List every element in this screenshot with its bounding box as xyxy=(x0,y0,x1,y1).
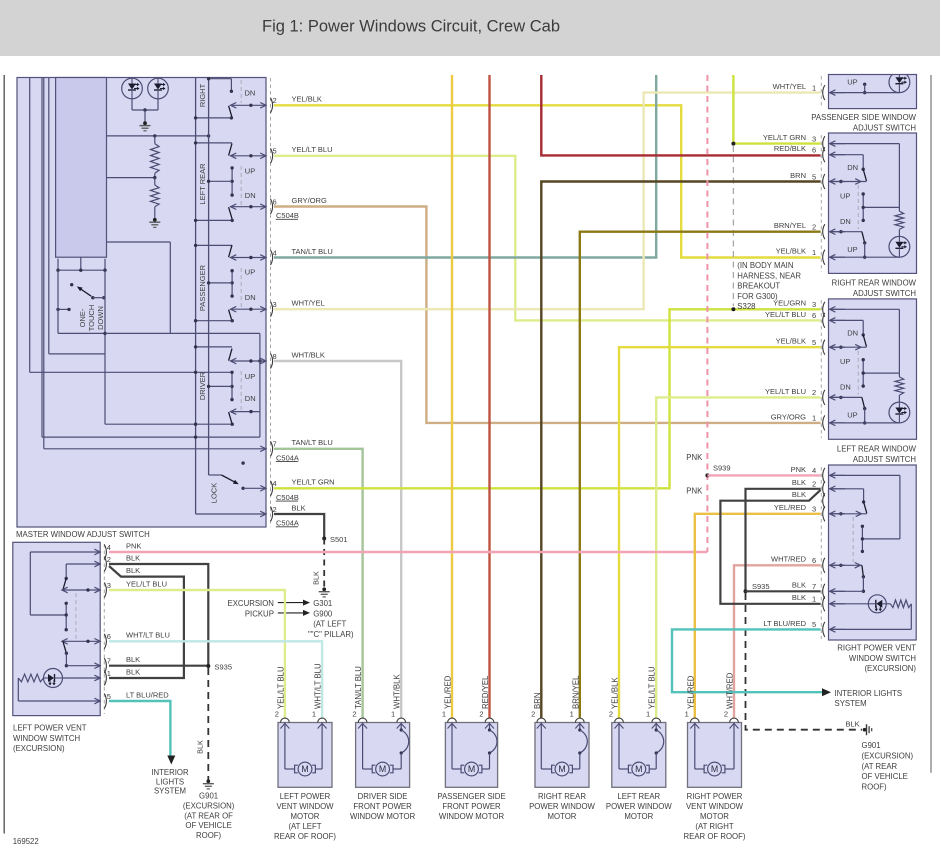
svg-text:5: 5 xyxy=(273,147,277,156)
S5 pin2 to contact xyxy=(830,488,864,490)
pin 3 S6 (YEL/LT BLU) xyxy=(104,583,106,598)
svg-text:6: 6 xyxy=(812,311,816,320)
ground G901 (right) xyxy=(863,728,867,732)
wire YEL/LT GRN (master pin 4 to left rear pin 3 via S328) xyxy=(274,309,821,488)
connector dashed line (S6) xyxy=(103,544,105,714)
svg-text:2: 2 xyxy=(609,710,613,719)
pin 2 master (BLK) xyxy=(271,507,273,522)
svg-text:M: M xyxy=(558,764,565,774)
svg-text:BLK: BLK xyxy=(792,478,806,487)
svg-text:MOTOR: MOTOR xyxy=(624,812,653,821)
svg-text:7: 7 xyxy=(812,582,816,591)
svg-text:C504B: C504B xyxy=(276,493,299,502)
svg-text:1: 1 xyxy=(685,710,689,719)
pin 1 S4 (GRY/ORG) xyxy=(823,415,825,430)
svg-text:YEL/LT BLU: YEL/LT BLU xyxy=(292,145,333,154)
svg-text:WINDOW SWITCH: WINDOW SWITCH xyxy=(13,734,80,743)
svg-text:2: 2 xyxy=(273,96,277,105)
svg-text:YEL/GRN: YEL/GRN xyxy=(773,299,806,308)
svg-text:LEFT POWER VENT: LEFT POWER VENT xyxy=(13,724,87,733)
svg-text:4: 4 xyxy=(273,479,277,488)
diagram right border xyxy=(930,75,932,773)
S5 pin7 row xyxy=(830,590,864,592)
wire DRIVER common loop to left riser xyxy=(259,412,261,438)
svg-text:RIGHT REAR: RIGHT REAR xyxy=(538,792,586,801)
right rear window adjust switch S3 box xyxy=(829,133,917,273)
switch DRIVER SPDT2 row xyxy=(231,411,260,413)
svg-text:HARNESS, NEAR: HARNESS, NEAR xyxy=(737,271,801,280)
switch PASSENGER upper contact feed from bus B1 xyxy=(196,244,232,246)
svg-text:YEL/LT BLU: YEL/LT BLU xyxy=(126,579,167,588)
motor M5 left rear symbol xyxy=(628,765,631,773)
switch section RIGHT - DN contact feed xyxy=(209,78,232,80)
svg-text:RIGHT POWER: RIGHT POWER xyxy=(687,792,743,801)
svg-text:DN: DN xyxy=(245,394,256,403)
splice S501 xyxy=(322,537,326,541)
svg-text:POWER WINDOW: POWER WINDOW xyxy=(606,802,672,811)
svg-text:6: 6 xyxy=(107,632,111,641)
svg-text:M: M xyxy=(635,764,642,774)
svg-text:PASSENGER SIDE: PASSENGER SIDE xyxy=(437,792,505,801)
svg-text:YEL/LT GRN: YEL/LT GRN xyxy=(763,133,806,142)
motor M3 passenger side front symbol xyxy=(461,765,464,773)
svg-text:BRN: BRN xyxy=(533,693,542,709)
svg-text:M: M xyxy=(711,764,718,774)
svg-text:M: M xyxy=(301,764,308,774)
wire YEL/LT BLU (left rear pin 2 to left rear motor pin 1) xyxy=(656,397,820,718)
wire S4 pin3 internal loop xyxy=(830,308,900,310)
svg-text:G901: G901 xyxy=(199,792,218,801)
pin 2 S3 (BRN/YEL) xyxy=(823,224,825,239)
svg-text:2: 2 xyxy=(724,710,728,719)
motor M2 driver side front lead-in arrows xyxy=(358,724,367,729)
svg-text:4: 4 xyxy=(812,466,816,475)
svg-text:TOUCH: TOUCH xyxy=(87,305,96,332)
pin 7 S5 (BLK) xyxy=(823,584,825,599)
pin 5 S3 (BRN) xyxy=(823,174,825,189)
S5 stem xyxy=(861,526,863,551)
motor M3 passenger side front box xyxy=(445,723,497,788)
svg-text:LEFT REAR: LEFT REAR xyxy=(198,163,207,205)
S5 mech link xyxy=(852,517,854,562)
diagram left border xyxy=(3,75,5,834)
S5 pin6 row and blade 2 xyxy=(830,564,862,566)
wire YEL/LT BLU (S6 pin 3 to left vent motor pin 2) xyxy=(109,590,285,718)
svg-text:4: 4 xyxy=(107,543,111,552)
wire BLK (S935 to S5 pin 7) xyxy=(746,590,821,592)
wire one-touch bottom edge xyxy=(58,332,105,334)
wire TAN/LT BLU (master pin 7 to driver motor pin 2) xyxy=(274,449,363,719)
svg-text:YEL/LT BLU: YEL/LT BLU xyxy=(276,666,285,709)
wire LT BLU/RED (S5 pin 5 to interior lights) xyxy=(672,629,822,692)
svg-text:UP: UP xyxy=(847,78,857,87)
splice S935 (right) xyxy=(744,589,748,593)
svg-text:WHT/YEL: WHT/YEL xyxy=(292,299,325,308)
svg-text:OF VEHICLE: OF VEHICLE xyxy=(862,772,908,781)
svg-text:(AT RIGHT: (AT RIGHT xyxy=(695,822,733,831)
wire BLK dashed S501 to ground xyxy=(323,539,325,590)
svg-text:3: 3 xyxy=(812,300,816,309)
motor M6 right power vent internal wiring xyxy=(694,723,696,770)
svg-text:1: 1 xyxy=(570,710,574,719)
svg-text:GRY/ORG: GRY/ORG xyxy=(292,196,327,205)
connector dashed line C504 (master) xyxy=(270,78,272,527)
svg-text:5: 5 xyxy=(107,692,111,701)
svg-text:WHT/RED: WHT/RED xyxy=(771,555,807,564)
motor M4 right rear symbol xyxy=(552,765,555,773)
pin 7 S6 (BLK) xyxy=(104,658,106,673)
wire BLK (master pin 2 to splice S501) xyxy=(274,514,324,539)
splice S328 dashed link xyxy=(732,146,734,306)
svg-text:BLK: BLK xyxy=(126,566,140,575)
passenger side window adjust switch S2 box xyxy=(829,75,917,109)
svg-text:2: 2 xyxy=(812,480,816,489)
pin 4 master (YEL/LT GRN) xyxy=(271,481,273,496)
svg-text:2: 2 xyxy=(275,710,279,719)
ground (resistor divider) xyxy=(153,218,157,222)
svg-text:LT BLU/RED: LT BLU/RED xyxy=(763,619,806,628)
pin 6 S5 (WHT/RED) xyxy=(823,558,825,573)
svg-text:1: 1 xyxy=(646,710,650,719)
motor M6 right power vent box xyxy=(688,723,742,788)
svg-text:2: 2 xyxy=(812,223,816,232)
svg-text:MOTOR: MOTOR xyxy=(291,812,320,821)
svg-text:YEL/BLK: YEL/BLK xyxy=(611,677,620,709)
svg-text:PICKUP: PICKUP xyxy=(245,609,274,618)
svg-text:VENT WINDOW: VENT WINDOW xyxy=(686,802,744,811)
svg-text:YEL/LT BLU: YEL/LT BLU xyxy=(765,387,806,396)
switch PASSENGER SPDT1 row to pin 4 xyxy=(231,257,266,259)
LED (S6 illumination) xyxy=(44,669,63,688)
pin 3 S3 (YEL/LT GRN) xyxy=(823,136,825,151)
svg-text:LEFT POWER: LEFT POWER xyxy=(280,792,331,801)
svg-text:RED/YEL: RED/YEL xyxy=(481,675,490,709)
pin 2 master (YEL/BLK) xyxy=(271,98,273,113)
switch LOCK feed from bus B2 xyxy=(209,474,222,476)
svg-text:DN: DN xyxy=(245,89,256,98)
svg-text:ADJUST SWITCH: ADJUST SWITCH xyxy=(853,455,916,464)
svg-text:EXCURSION: EXCURSION xyxy=(228,599,274,608)
svg-text:BLK: BLK xyxy=(846,719,860,728)
S6 pin arrow xyxy=(94,587,100,593)
svg-text:YEL/BLK: YEL/BLK xyxy=(292,95,322,104)
pin - S5 (BLK second wire) xyxy=(823,493,825,508)
switch DRIVER SPDT1 row to pin 8 xyxy=(231,360,266,362)
node LED junction xyxy=(143,108,146,111)
svg-text:WHT/LT BLU: WHT/LT BLU xyxy=(314,663,323,709)
pin 6 S3 (RED/BLK) xyxy=(823,147,825,162)
svg-text:G301: G301 xyxy=(313,599,332,608)
node resistor top feed xyxy=(153,134,156,137)
pin 6 master (GRY/ORG) xyxy=(271,199,273,214)
svg-text:WHT/BLK: WHT/BLK xyxy=(393,674,402,709)
wire YEL/BLK (left rear pin 5 to left rear motor pin 2) xyxy=(619,347,821,718)
svg-text:WINDOW MOTOR: WINDOW MOTOR xyxy=(439,812,505,821)
switch RIGHT blade and row to pin 2 xyxy=(231,104,266,106)
S6 blade 1 xyxy=(63,578,66,589)
svg-text:ONE-: ONE- xyxy=(78,308,87,327)
switch LEFT REAR up/dn feed stem xyxy=(231,168,233,195)
svg-text:VENT WINDOW: VENT WINDOW xyxy=(276,802,334,811)
S6 pin arrow xyxy=(94,698,100,704)
svg-text:S501: S501 xyxy=(330,535,348,544)
wire GRY/ORG (master pin 6 to left rear pin 1) xyxy=(274,207,821,423)
wire S3 pin6 to upper contact xyxy=(830,154,864,156)
svg-text:RIGHT REAR WINDOW: RIGHT REAR WINDOW xyxy=(832,279,917,288)
pin 6 S4 (YEL/LT BLU) xyxy=(823,313,825,328)
S5 pin3 row xyxy=(830,513,867,515)
node driver row junction xyxy=(258,359,261,362)
svg-text:6: 6 xyxy=(812,146,816,155)
svg-text:FRONT POWER: FRONT POWER xyxy=(442,802,501,811)
svg-text:MOTOR: MOTOR xyxy=(548,812,577,821)
motor M6 right power vent lead-in arrows xyxy=(690,724,699,729)
svg-text:3: 3 xyxy=(273,300,277,309)
wire S3 pin3 internal loop xyxy=(830,143,900,145)
wire BLK dashed (S935 to ground G901 right) xyxy=(746,593,863,730)
wire one-touch lower contact xyxy=(58,308,69,310)
svg-text:UP: UP xyxy=(245,167,255,176)
switch blade 1 (S3) xyxy=(863,169,866,181)
LED (S5 illumination) xyxy=(868,595,886,613)
left power vent window switch S6 box xyxy=(13,542,100,715)
switch blade 2 (S3) xyxy=(830,231,862,233)
svg-text:2: 2 xyxy=(352,710,356,719)
wire left internal riser 3 xyxy=(43,78,45,449)
wire left internal riser 1 xyxy=(29,78,31,373)
svg-text:DN: DN xyxy=(847,329,858,338)
S6 pin5 row xyxy=(18,700,100,702)
svg-text:BRN/YEL: BRN/YEL xyxy=(774,221,806,230)
wire left internal riser 2 xyxy=(41,78,43,438)
wire BRN/YEL (right rear pin 2 to right rear motor pin 1) xyxy=(580,232,821,719)
resistor R1 xyxy=(154,136,156,144)
S6 pin arrow xyxy=(94,561,100,567)
wire inner box to R1/R2 junction xyxy=(107,177,155,179)
wire BLK second (S5 pin 2 to pin 1 loop) xyxy=(720,490,820,604)
svg-text:TAN/LT BLU: TAN/LT BLU xyxy=(292,438,333,447)
svg-text:1: 1 xyxy=(442,710,446,719)
S6 pin arrow xyxy=(94,549,100,555)
svg-text:PNK: PNK xyxy=(791,465,806,474)
resistor R2 xyxy=(154,178,156,185)
motor M6 right power vent pin bumps xyxy=(690,718,699,722)
S6 pin7 row xyxy=(66,665,100,667)
wire BLK second (S6 pin 2 to pin 1 loop) xyxy=(109,566,184,678)
svg-text:LOCK: LOCK xyxy=(210,483,219,503)
svg-text:4: 4 xyxy=(273,248,277,257)
switch DRIVER upper contact feed from bus B1 xyxy=(196,346,232,348)
one-touch-down module lines xyxy=(57,259,59,271)
motor M4 right rear pin bumps xyxy=(537,718,546,722)
svg-text:FRONT POWER: FRONT POWER xyxy=(353,802,412,811)
svg-text:LEFT REAR WINDOW: LEFT REAR WINDOW xyxy=(837,445,917,454)
svg-text:YEL/RED: YEL/RED xyxy=(444,675,453,709)
svg-text:7: 7 xyxy=(107,657,111,666)
motor M3 passenger side front lead-in arrows xyxy=(448,724,457,729)
motor M1 left power vent pin bumps xyxy=(281,718,290,722)
motor M3 passenger side front internal wiring xyxy=(451,723,453,770)
S6 pin3 row xyxy=(63,589,100,591)
svg-text:5: 5 xyxy=(812,338,816,347)
S6 pin arrow xyxy=(94,639,100,645)
svg-text:(IN BODY MAIN: (IN BODY MAIN xyxy=(737,261,793,270)
wire bus B1 to pin 2 xyxy=(196,513,265,515)
svg-text:C504B: C504B xyxy=(276,211,299,220)
pin 6 S6 (WHT/LT BLU) xyxy=(104,634,106,649)
svg-text:WHT/RED: WHT/RED xyxy=(726,672,735,709)
svg-text:YEL/RED: YEL/RED xyxy=(686,675,695,709)
LED D1 (master switch illumination) xyxy=(122,78,143,99)
svg-text:G901: G901 xyxy=(862,741,881,750)
svg-text:BLK: BLK xyxy=(196,740,205,754)
wire riser4 to one-touch leg xyxy=(49,353,105,355)
svg-text:TAN/LT BLU: TAN/LT BLU xyxy=(354,666,363,709)
svg-text:1: 1 xyxy=(812,83,816,92)
mech link (driver) xyxy=(240,371,242,410)
wire S4 pin6 to upper contact xyxy=(830,319,864,321)
svg-text:PNK: PNK xyxy=(686,486,703,495)
pin 8 master (WHT/BLK) xyxy=(271,354,273,369)
svg-text:S935: S935 xyxy=(752,582,770,591)
wire WHT/BLK (master pin 8 to driver motor pin 1) xyxy=(274,361,401,718)
svg-text:1: 1 xyxy=(812,248,816,257)
pin 3 S5 (YEL/RED) xyxy=(823,506,825,521)
svg-text:M: M xyxy=(379,764,386,774)
svg-text:2: 2 xyxy=(273,505,277,514)
left rear window adjust switch S4 box xyxy=(829,299,917,439)
svg-text:SYSTEM: SYSTEM xyxy=(835,699,867,708)
pin 4 S5 (PNK) xyxy=(823,468,825,483)
svg-text:3: 3 xyxy=(107,581,111,590)
svg-text:SYSTEM: SYSTEM xyxy=(154,787,186,796)
svg-text:LIGHTS: LIGHTS xyxy=(156,777,184,786)
svg-text:BRN: BRN xyxy=(790,171,806,180)
S5 pin4 internal loop xyxy=(830,474,900,476)
switch one-touch-down contact xyxy=(70,283,73,286)
wire RED/BLK (from top to right rear pin 6) xyxy=(541,75,820,155)
svg-text:2: 2 xyxy=(531,710,535,719)
wire S3 up/dn feed stem xyxy=(862,194,864,220)
connector dashed line (S5) xyxy=(820,467,822,639)
svg-text:WHT/BLK: WHT/BLK xyxy=(292,350,325,359)
LED D2 (master switch illumination) xyxy=(148,78,169,99)
wire left internal riser 4 xyxy=(48,78,50,354)
svg-text:MOTOR: MOTOR xyxy=(700,812,729,821)
svg-text:(AT LEFT: (AT LEFT xyxy=(313,620,346,629)
resistor (S6 illumination) xyxy=(18,674,43,682)
svg-text:YEL/RED: YEL/RED xyxy=(774,503,807,512)
svg-text:ROOF): ROOF) xyxy=(196,831,222,840)
wire driver common riser xyxy=(259,333,261,411)
svg-text:REAR OF ROOF): REAR OF ROOF) xyxy=(684,832,746,841)
svg-text:DOWN: DOWN xyxy=(96,306,105,330)
svg-text:1: 1 xyxy=(107,669,111,678)
svg-text:DN: DN xyxy=(847,163,858,172)
S5 pin1 row xyxy=(830,603,869,605)
svg-text:UP: UP xyxy=(840,357,850,366)
svg-text:TAN/LT BLU: TAN/LT BLU xyxy=(292,247,333,256)
ground (LED return) xyxy=(143,121,147,125)
S6 pin4 internal loop xyxy=(30,551,100,553)
svg-text:OF VEHICLE: OF VEHICLE xyxy=(185,821,231,830)
svg-text:G900: G900 xyxy=(313,609,333,618)
mech link (left rear) xyxy=(240,166,242,206)
wire PNK dashed (top to vent switches) xyxy=(706,75,708,552)
svg-text:UP: UP xyxy=(245,372,255,381)
switch DRIVER up/dn stem xyxy=(231,372,233,399)
svg-text:(EXCURSION): (EXCURSION) xyxy=(864,664,916,673)
wire BLK (S6 pin 7 to S935 left) xyxy=(109,665,208,667)
wire WHT/LT BLU (S6 pin 6 to left vent motor pin 1) xyxy=(109,641,322,718)
svg-text:LT BLU/RED: LT BLU/RED xyxy=(126,690,169,699)
svg-text:RED/BLK: RED/BLK xyxy=(774,144,806,153)
pin 1 S5 (BLK) xyxy=(823,596,825,611)
svg-text:169522: 169522 xyxy=(13,837,39,846)
svg-text:PNK: PNK xyxy=(686,453,703,462)
svg-text:BREAKOUT: BREAKOUT xyxy=(737,282,780,291)
motor M6 right power vent symbol xyxy=(704,765,707,773)
LED (S4 illumination) xyxy=(889,402,910,423)
wire RED/YEL (top to passenger motor pin 2) xyxy=(488,75,490,718)
right power vent window switch S5 box xyxy=(829,465,917,640)
svg-text:GRY/ORG: GRY/ORG xyxy=(771,412,806,421)
svg-text:RIGHT POWER VENT: RIGHT POWER VENT xyxy=(837,644,916,653)
pin 2 S6 (BLK) xyxy=(104,557,106,572)
svg-text:5: 5 xyxy=(812,620,816,629)
svg-text:1: 1 xyxy=(812,595,816,604)
svg-text:PNK: PNK xyxy=(126,541,141,550)
mech link (passenger) xyxy=(240,268,242,308)
svg-text:INTERIOR LIGHTS: INTERIOR LIGHTS xyxy=(835,689,903,698)
pin 3 S4 (YEL/GRN) xyxy=(823,302,825,317)
motor M4 right rear lead-in arrows xyxy=(537,724,546,729)
svg-text:BLK: BLK xyxy=(312,571,321,585)
pin 2 S5 (BLK) xyxy=(823,481,825,496)
wire D1/D2 cathode join xyxy=(131,99,133,110)
wire DRIVER lower contact feed xyxy=(105,423,232,425)
S2 pin 1 row xyxy=(830,92,900,94)
wire one-touch right leg xyxy=(104,270,106,424)
motor M2 driver side front symbol xyxy=(372,765,375,773)
svg-text:(AT REAR OF: (AT REAR OF xyxy=(184,811,233,820)
wire LEFT REAR lower contact from bus B1 xyxy=(196,219,233,221)
wire riser3 to pin 7 row xyxy=(44,448,265,450)
node one-touch joints xyxy=(56,269,59,272)
pin 4 master (TAN/LT BLU) xyxy=(271,250,273,265)
motor M1 left power vent symbol xyxy=(295,765,298,773)
switch blade 1 (S4) xyxy=(863,335,866,347)
svg-text:2: 2 xyxy=(479,710,483,719)
splice S328 upper node xyxy=(731,142,735,146)
svg-text:S328: S328 xyxy=(737,302,755,311)
S6 pin1 row xyxy=(63,677,101,679)
pin 5 S5 (LT BLU/RED) xyxy=(823,622,825,637)
svg-text:1: 1 xyxy=(812,414,816,423)
motor M1 left power vent lead-in arrows xyxy=(280,724,289,729)
motor M1 left power vent internal wiring xyxy=(284,723,286,770)
svg-text:FOR G300): FOR G300) xyxy=(737,292,778,301)
wire BLK (S5 pin 2 to splice S935) xyxy=(746,489,821,592)
svg-text:C504A: C504A xyxy=(276,453,299,462)
S6 pin arrow xyxy=(94,675,100,681)
wire S4 up/dn feed stem xyxy=(862,360,864,386)
svg-text:REAR OF ROOF): REAR OF ROOF) xyxy=(274,832,336,841)
svg-text:(AT LEFT: (AT LEFT xyxy=(288,822,321,831)
wire TAN/LT BLU (master pin 4, exits top) xyxy=(274,75,656,258)
pin 2 S4 (YEL/LT BLU) xyxy=(823,390,825,405)
svg-text:BLK: BLK xyxy=(126,667,140,676)
